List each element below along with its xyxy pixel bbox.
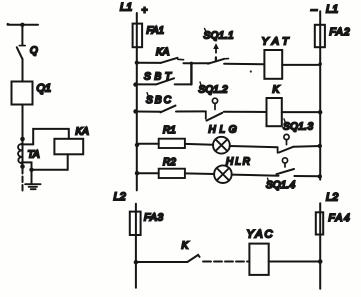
coil YAT — [264, 50, 282, 79]
wire — [175, 83, 192, 85]
wire — [282, 64, 320, 66]
lamp HLR — [214, 165, 232, 183]
svg-text:K: K — [182, 241, 190, 252]
svg-text:TA: TA — [28, 150, 40, 161]
wire — [224, 63, 264, 65]
svg-text:YAT: YAT — [262, 36, 291, 48]
svg-text:L1: L1 — [120, 2, 132, 14]
coil YAC — [249, 244, 268, 275]
node row1 left — [135, 61, 139, 65]
svg-text:L2: L2 — [326, 192, 338, 204]
wire — [22, 59, 24, 82]
fuse FA3 — [130, 212, 141, 235]
left rail L2 — [135, 204, 137, 288]
wire dashed — [203, 261, 249, 263]
contact KA — [161, 58, 178, 63]
switch Q — [17, 46, 25, 60]
svg-text:HLR: HLR — [226, 157, 250, 168]
svg-text:SQ1.4: SQ1.4 — [266, 180, 295, 191]
contactor coil K — [267, 98, 282, 126]
svg-text:Q: Q — [30, 46, 38, 57]
wire — [184, 62, 210, 64]
wire — [176, 110, 206, 112]
resistor R2 — [159, 169, 185, 178]
wire secondary bottom — [32, 154, 68, 170]
wire — [137, 172, 159, 174]
svg-text:Q1: Q1 — [37, 83, 52, 95]
contact K — [187, 255, 199, 262]
wire — [269, 261, 321, 263]
lamp HLG — [213, 137, 230, 154]
svg-text:L1: L1 — [326, 4, 338, 16]
svg-text:FA3: FA3 — [144, 213, 163, 224]
right rail L2 — [319, 203, 321, 289]
svg-text:YAC: YAC — [247, 229, 273, 241]
node — [318, 144, 322, 148]
svg-text:R1: R1 — [163, 125, 176, 136]
transformer TA coil — [18, 144, 21, 163]
node — [134, 260, 138, 264]
svg-text:KA: KA — [76, 127, 90, 138]
limit switch SQ1.3 — [278, 134, 294, 152]
wire — [232, 175, 279, 176]
wire secondary top — [22, 129, 69, 145]
svg-text:SQ1.2: SQ1.2 — [199, 85, 228, 96]
node row4 left — [135, 143, 139, 147]
wire — [224, 111, 267, 113]
svg-text:SBC: SBC — [146, 95, 172, 106]
limit switch SQ1.4 — [276, 158, 294, 174]
wire — [21, 25, 23, 45]
svg-text:SQ1.3: SQ1.3 — [283, 122, 313, 133]
wire — [22, 105, 24, 168]
wire — [294, 145, 320, 148]
wire — [137, 83, 156, 85]
relay coil KA — [54, 139, 83, 155]
left rail L1 — [136, 13, 138, 190]
wire dashed — [22, 168, 24, 191]
wire — [137, 111, 161, 113]
wire — [294, 175, 320, 177]
node — [20, 164, 25, 169]
svg-text:KA: KA — [156, 47, 170, 58]
node row3 left — [133, 109, 137, 113]
svg-text:FA1: FA1 — [147, 26, 165, 37]
svg-text:HLG: HLG — [209, 125, 237, 136]
node — [20, 137, 25, 142]
fuse FA4 — [316, 212, 323, 234]
tick over S — [268, 178, 269, 181]
button SBT — [156, 78, 174, 84]
node row5 left — [135, 171, 139, 175]
wire — [137, 62, 161, 64]
node — [318, 174, 322, 178]
wire — [137, 143, 159, 145]
node — [29, 168, 33, 172]
resistor R1 — [159, 139, 185, 148]
stray speck — [250, 70, 252, 72]
limit switch SQ1.2 — [206, 98, 223, 120]
bus bar — [8, 24, 39, 26]
limit switch SQ1.1 — [208, 44, 229, 63]
breaker Q1 — [12, 82, 33, 105]
svg-text:FA4: FA4 — [329, 213, 350, 224]
node — [318, 110, 322, 114]
svg-text:SQ1.1: SQ1.1 — [204, 31, 234, 42]
svg-text:SBT: SBT — [144, 72, 172, 83]
wire — [185, 143, 213, 146]
wire — [230, 146, 278, 147]
wire — [185, 172, 214, 175]
fuse FA1 — [133, 24, 143, 48]
tick over S — [284, 119, 285, 122]
svg-text:K: K — [273, 85, 281, 96]
button SBC — [161, 106, 176, 113]
node — [319, 62, 322, 65]
wire — [136, 261, 188, 263]
svg-text:+: + — [142, 6, 148, 17]
node on bus — [20, 23, 24, 27]
svg-text:R2: R2 — [163, 157, 176, 168]
fuse FA2 — [315, 25, 325, 47]
node — [318, 259, 323, 264]
wire coil to ground — [22, 162, 32, 183]
right rail L1 — [319, 11, 321, 179]
wire — [282, 111, 320, 113]
svg-text:–: – — [310, 4, 318, 16]
tick over S — [147, 93, 148, 96]
node — [190, 62, 193, 65]
tick over S — [200, 82, 201, 85]
tick over S — [205, 29, 207, 32]
svg-text:L2: L2 — [114, 191, 126, 203]
ground — [25, 184, 40, 189]
wire parallel connector — [190, 63, 192, 84]
node row2 left — [133, 82, 137, 86]
svg-text:FA2: FA2 — [330, 27, 350, 38]
